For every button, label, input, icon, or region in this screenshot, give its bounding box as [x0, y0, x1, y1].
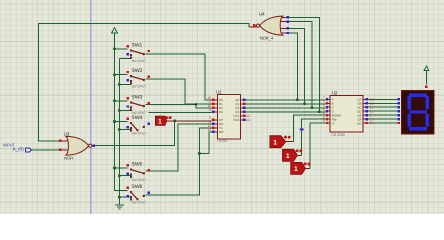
- svg-text:1: 1: [209, 100, 211, 104]
- svg-text:UP: UP: [219, 118, 223, 121]
- svg-text:SW5: SW5: [132, 161, 143, 167]
- svg-text:QC: QC: [357, 106, 361, 109]
- svg-text:1: 1: [158, 117, 162, 125]
- svg-text:NOR_4: NOR_4: [260, 36, 274, 41]
- svg-text:9: 9: [370, 113, 372, 117]
- svg-text:SW4: SW4: [132, 115, 143, 121]
- svg-text:15: 15: [370, 117, 374, 121]
- svg-text:Q1: Q1: [235, 102, 239, 105]
- svg-text:D0: D0: [219, 98, 223, 101]
- svg-text:SW-SPDT: SW-SPDT: [132, 201, 147, 205]
- svg-text:Q2: Q2: [235, 106, 239, 109]
- svg-text:A_(0): A_(0): [13, 147, 24, 152]
- svg-text:B: B: [332, 102, 334, 105]
- svg-text:RBI: RBI: [332, 118, 337, 121]
- svg-text:9: 9: [209, 108, 211, 112]
- svg-text:11: 11: [208, 124, 212, 128]
- svg-text:1: 1: [323, 100, 325, 104]
- svg-text:74LS48: 74LS48: [331, 133, 345, 138]
- svg-text:DN: DN: [219, 122, 224, 125]
- svg-text:10: 10: [370, 109, 374, 113]
- svg-text:SW-SPDT: SW-SPDT: [132, 132, 147, 136]
- svg-text:U4: U4: [259, 12, 265, 17]
- svg-text:13: 13: [246, 118, 250, 122]
- svg-text:QB: QB: [357, 102, 361, 105]
- svg-text:U1: U1: [216, 89, 222, 94]
- svg-text:MR: MR: [219, 130, 224, 133]
- svg-text:A: A: [332, 98, 334, 101]
- svg-text:6: 6: [323, 107, 325, 111]
- svg-text:QG: QG: [357, 122, 362, 125]
- svg-text:LT: LT: [332, 122, 335, 125]
- svg-text:NOR: NOR: [64, 156, 73, 161]
- svg-text:PL: PL: [219, 126, 223, 129]
- svg-text:TCU: TCU: [233, 114, 239, 117]
- svg-text:1: 1: [294, 165, 298, 173]
- svg-text:13: 13: [370, 98, 374, 102]
- svg-text:74193: 74193: [216, 139, 227, 144]
- svg-text:U2: U2: [332, 91, 338, 96]
- svg-text:7: 7: [323, 96, 325, 100]
- svg-text:SW1: SW1: [132, 42, 143, 48]
- svg-text:14: 14: [207, 128, 211, 132]
- svg-text:1: 1: [286, 152, 290, 160]
- svg-text:1: 1: [273, 138, 277, 146]
- svg-text:SW2: SW2: [132, 68, 143, 74]
- svg-text:12: 12: [370, 102, 374, 106]
- svg-text:SW6: SW6: [132, 184, 143, 190]
- svg-text:SW-SPDT: SW-SPDT: [132, 59, 147, 63]
- svg-text:D1: D1: [219, 102, 223, 105]
- svg-text:QD: QD: [357, 110, 361, 113]
- svg-text:SW3: SW3: [132, 94, 143, 100]
- svg-text:5: 5: [323, 115, 325, 119]
- svg-text:4: 4: [323, 111, 325, 115]
- svg-text:QA: QA: [357, 98, 361, 101]
- svg-text:QE: QE: [357, 114, 361, 117]
- svg-text:D: D: [332, 110, 334, 113]
- svg-text:3: 3: [323, 119, 325, 123]
- svg-text:D2: D2: [219, 106, 223, 109]
- svg-text:2: 2: [323, 104, 325, 108]
- svg-text:10: 10: [207, 104, 211, 108]
- svg-text:14: 14: [370, 121, 374, 125]
- svg-text:SW-SPDT: SW-SPDT: [132, 85, 147, 89]
- svg-text:15: 15: [207, 96, 211, 100]
- svg-text:BI/RBO: BI/RBO: [332, 114, 342, 117]
- svg-text:D3: D3: [219, 110, 223, 113]
- svg-text:SW-SPDT: SW-SPDT: [132, 178, 147, 182]
- svg-text:5: 5: [209, 116, 211, 120]
- svg-text:QF: QF: [358, 118, 362, 121]
- svg-text:11: 11: [370, 106, 374, 110]
- svg-text:C: C: [332, 106, 334, 109]
- svg-text:Q0: Q0: [235, 98, 239, 101]
- svg-text:12: 12: [246, 114, 250, 118]
- svg-text:TCD: TCD: [233, 118, 239, 121]
- svg-text:U3: U3: [64, 132, 70, 137]
- svg-text:Q3: Q3: [235, 110, 239, 113]
